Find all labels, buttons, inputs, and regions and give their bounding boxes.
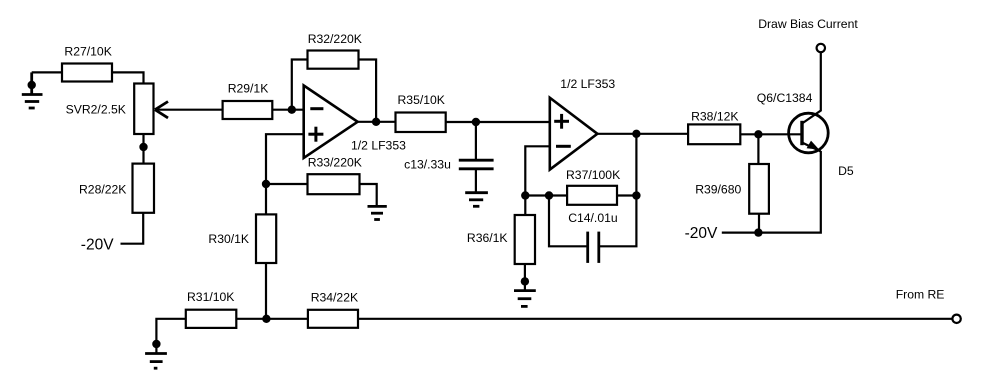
wire: R29 right to U1 inverting input: [272, 109, 303, 111]
resistor R39: [749, 164, 769, 214]
capacitor C14: [588, 232, 599, 263]
wire: bottom rail left segment to R31: [156, 319, 185, 354]
node at bottom rail / R30 branch: [262, 315, 270, 323]
svg-text:R36/1K: R36/1K: [467, 231, 508, 245]
resistor R33: [308, 174, 360, 194]
wire: R37 right to output branch: [617, 194, 636, 196]
wire: R30 branch vertical: [265, 263, 267, 319]
node at U2 output: [632, 130, 640, 138]
svg-text:R28/22K: R28/22K: [79, 183, 126, 197]
ground (below R31 left): [145, 354, 167, 369]
resistor R37: [567, 186, 617, 205]
wire: U2 output to R38: [597, 133, 688, 135]
svg-text:R32/220K: R32/220K: [308, 32, 362, 46]
resistor R34: [308, 310, 358, 328]
svg-text:D5: D5: [838, 164, 854, 178]
wire: bottom rail to From RE terminal: [358, 318, 952, 320]
node below SVR2: [139, 143, 147, 151]
node at U2 inverting branch: [521, 191, 529, 199]
node at U1 inverting input: [288, 106, 296, 114]
svg-text:Q6/C1384: Q6/C1384: [757, 91, 813, 105]
wire: R35 right to U2 non-inverting input: [446, 121, 550, 123]
resistor R30: [256, 214, 276, 263]
wire: node to R33 left: [266, 183, 308, 185]
wire: feedback up to R32: [292, 60, 308, 110]
svg-text:c13/.33u: c13/.33u: [404, 158, 451, 172]
wire: pot bottom to R28 top: [142, 134, 144, 164]
resistor R38: [688, 124, 740, 144]
U1 plus symbol: [308, 127, 323, 142]
op-amp U2: [550, 98, 598, 170]
svg-text:SVR2/2.5K: SVR2/2.5K: [66, 102, 126, 116]
resistor R28: [133, 164, 155, 213]
svg-text:1/2 LF353: 1/2 LF353: [560, 77, 615, 91]
node at R39 top branch: [754, 130, 762, 138]
Q6 collector: [802, 53, 821, 124]
wiper arrow of SVR2: [155, 102, 168, 118]
ground (below R36): [514, 291, 536, 307]
svg-text:R31/10K: R31/10K: [187, 290, 234, 304]
potentiometer SVR2 body: [134, 84, 153, 135]
wire: R33 right to ground: [360, 184, 377, 206]
op-amp U1: [304, 86, 358, 158]
ground (below c13): [465, 193, 488, 207]
node above R31 ground: [152, 340, 160, 348]
resistor R27: [62, 64, 112, 82]
node at top-left ground: [28, 81, 36, 89]
wire: R28 bottom to -20V stub: [121, 213, 144, 244]
U1 minus symbol: [310, 107, 323, 110]
svg-text:R35/10K: R35/10K: [398, 93, 445, 107]
svg-text:R37/100K: R37/100K: [566, 168, 620, 182]
svg-text:R30/1K: R30/1K: [208, 232, 249, 246]
node at R39 bottom: [754, 228, 762, 236]
svg-text:R38/12K: R38/12K: [691, 110, 738, 124]
transistor Q6: [789, 113, 829, 153]
resistor R35: [396, 113, 446, 133]
Q6 emitter arrow: [807, 141, 820, 150]
capacitor C13: [459, 160, 494, 169]
U2 plus symbol: [554, 114, 569, 129]
node at U1 output: [372, 118, 380, 126]
svg-text:-20V: -20V: [685, 225, 718, 242]
svg-text:From RE: From RE: [896, 288, 945, 302]
wire: R32 right down to U1 output node: [359, 60, 377, 122]
node above R36 ground: [521, 277, 529, 285]
ground (top-left, at R27 input): [22, 72, 43, 108]
wire: U2 inverting input left and down: [525, 146, 550, 215]
svg-text:R34/22K: R34/22K: [311, 291, 358, 305]
ground (below R33): [368, 206, 387, 219]
wire: node down to R39: [757, 134, 759, 164]
svg-text:-20V: -20V: [81, 237, 114, 254]
wire: U1 output to R35: [358, 121, 396, 123]
wire: R27 right to potentiometer top: [112, 72, 144, 83]
terminal From RE: [952, 315, 960, 323]
svg-text:R27/10K: R27/10K: [64, 45, 111, 59]
resistor R29: [223, 101, 273, 119]
wire: R39 bottom to -20V rail: [758, 214, 760, 233]
node at R37 right: [632, 191, 640, 199]
Q6 emitter: [802, 143, 821, 152]
wire: wiper to R29 left: [156, 109, 223, 111]
node at C14 branch: [545, 191, 553, 199]
svg-text:C14/.01u: C14/.01u: [568, 211, 617, 225]
svg-text:Draw Bias Current: Draw Bias Current: [758, 17, 858, 31]
resistor R31: [186, 310, 237, 328]
Q6 base bar: [800, 121, 803, 145]
svg-text:R39/680: R39/680: [695, 183, 741, 197]
wire: c13 bottom to ground: [475, 169, 477, 193]
svg-text:R29/1K: R29/1K: [228, 82, 269, 96]
U2 minus symbol: [556, 145, 571, 148]
terminal Draw Bias Current: [817, 44, 825, 52]
wire: R36 bottom to ground: [524, 264, 526, 291]
wire: node down to c13: [475, 122, 477, 160]
svg-text:1/2 LF353: 1/2 LF353: [351, 139, 406, 153]
wire: C14 loop left side: [549, 196, 588, 247]
wire: ground to R27 left: [32, 71, 62, 73]
wire: C14 loop right side: [599, 134, 637, 247]
svg-text:R33/220K: R33/220K: [308, 155, 362, 169]
wire: U1 non-inverting input left and down: [266, 134, 304, 214]
wire: R38 right to Q6 base: [740, 133, 801, 135]
resistor R36: [515, 215, 535, 264]
wire: R31 right to R34 left: [236, 318, 308, 320]
wire: inverting node to R37 left: [525, 194, 567, 196]
node at c13 branch: [472, 118, 480, 126]
wire: -20V rail to emitter: [722, 151, 821, 233]
resistor R32: [308, 51, 359, 69]
node at R33 left branch: [262, 180, 270, 188]
